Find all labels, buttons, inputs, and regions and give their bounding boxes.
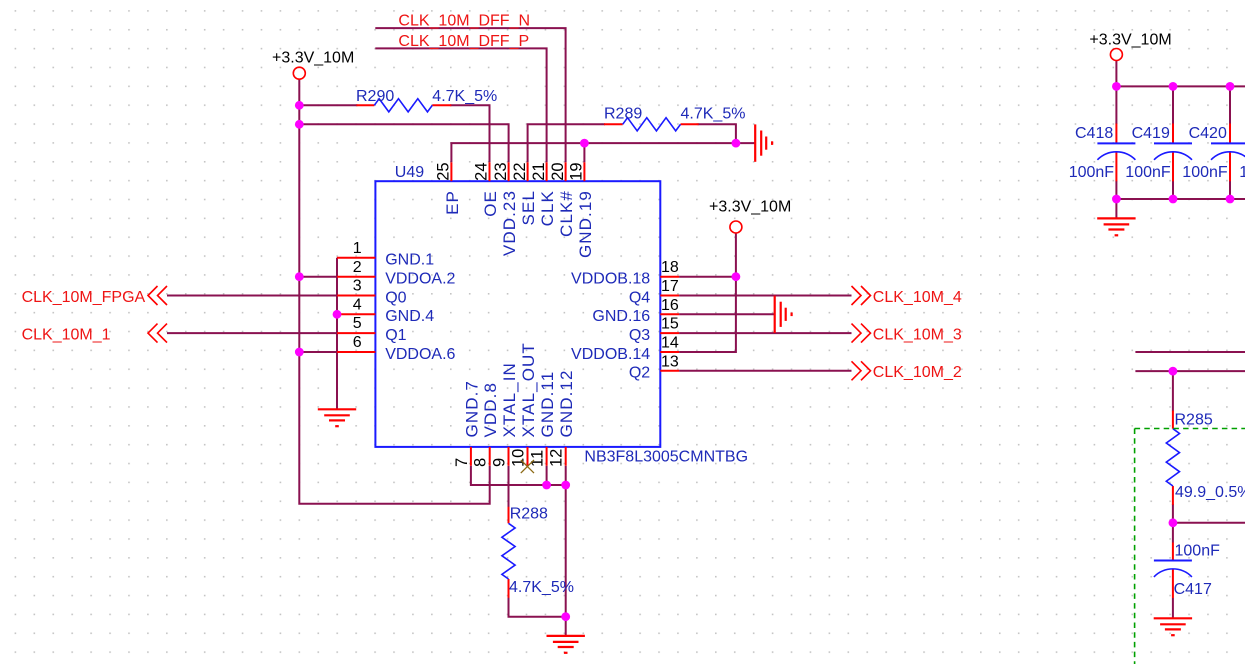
- svg-text:11: 11: [529, 450, 547, 467]
- svg-text:Q2: Q2: [629, 365, 650, 382]
- U49 top pin stubs 25-19: [451, 162, 584, 181]
- capacitor C420 pins: [1229, 124, 1231, 182]
- U49 left pin stubs 1-6: [337, 258, 375, 352]
- wire upper right horizontal 2 to R285: [1135, 370, 1245, 372]
- svg-text:VDDOA.2: VDDOA.2: [385, 271, 455, 288]
- svg-text:VDD.8: VDD.8: [481, 382, 500, 438]
- svg-text:CLK_10M_FPGA: CLK_10M_FPGA: [22, 289, 146, 306]
- capacitor C419 pins: [1172, 124, 1174, 182]
- off-page connector CLK_10M_3: [852, 324, 962, 344]
- U49 bottom pin numbers 7-12: [453, 449, 566, 467]
- svg-text:CLK_10M_3: CLK_10M_3: [873, 326, 962, 343]
- wire R288 bottom to ground node: [509, 597, 566, 617]
- resistor R289 pins: [604, 123, 699, 125]
- U49 bottom pin stubs 7-12: [471, 447, 566, 466]
- svg-text:15: 15: [661, 316, 679, 333]
- svg-text:R290: R290: [356, 88, 394, 105]
- wire C420 bottom: [1229, 181, 1231, 199]
- svg-text:CLK: CLK: [538, 190, 557, 226]
- capacitor C417 body: [1154, 561, 1192, 577]
- svg-text:18: 18: [661, 259, 679, 276]
- junction wire/R285: [1169, 367, 1178, 376]
- ground (cap bank): [1097, 218, 1135, 235]
- svg-text:1: 1: [353, 240, 362, 257]
- wire C419 top: [1172, 86, 1174, 124]
- junction capbus/C420: [1226, 82, 1235, 91]
- wire pin 9 (XTAL_IN) to R288: [508, 466, 510, 508]
- svg-text:6: 6: [353, 334, 362, 351]
- resistor R289 body: [623, 118, 681, 131]
- svg-text:NB3F8L3005CMNTBG: NB3F8L3005CMNTBG: [584, 448, 748, 465]
- wire rail to R290 left: [299, 104, 357, 106]
- svg-text:22: 22: [511, 162, 529, 180]
- wire cap top bus: [1116, 85, 1245, 87]
- wire cap bottom bus: [1116, 198, 1245, 200]
- svg-text:R285: R285: [1175, 412, 1213, 429]
- svg-text:EP: EP: [443, 190, 462, 215]
- U49 left pin names: [385, 252, 455, 363]
- svg-text:U49: U49: [395, 164, 424, 181]
- wire R290 right to pin 24 (OE): [450, 105, 489, 162]
- wire pin 16 (GND.16) to ground: [679, 313, 775, 315]
- ground (GND.16, rotated): [775, 296, 792, 333]
- svg-text:100nF: 100nF: [1069, 164, 1115, 181]
- wire net CLK_10M_DFF_N to pin 20: [375, 28, 565, 162]
- svg-text:GND.16: GND.16: [592, 308, 650, 325]
- resistor R288 body: [502, 523, 515, 579]
- junction gnd/pin4: [333, 310, 342, 319]
- svg-text:C418: C418: [1075, 125, 1113, 142]
- svg-text:24: 24: [473, 162, 491, 180]
- svg-text:CLK_10M_2: CLK_10M_2: [873, 364, 962, 381]
- svg-text:49.9_0.5%: 49.9_0.5%: [1175, 484, 1245, 501]
- svg-text:VDD.23: VDD.23: [500, 190, 519, 256]
- svg-text:+3.3V_10M: +3.3V_10M: [1089, 32, 1171, 49]
- power symbol +3.3V_10M (middle): [709, 199, 791, 234]
- junction gndwire/pin19: [580, 139, 589, 148]
- svg-text:2: 2: [353, 259, 362, 276]
- svg-text:R289: R289: [604, 106, 642, 123]
- U49 left pin numbers 1-6: [353, 240, 362, 351]
- svg-text:12: 12: [548, 449, 566, 467]
- ground (left, GND.1/GND.4): [318, 409, 356, 426]
- svg-text:4: 4: [353, 296, 362, 313]
- wire pin 19 drop: [583, 143, 585, 162]
- wire pin 13 (Q2) to CLK_10M_2: [679, 370, 851, 372]
- capacitor C418 pins: [1115, 124, 1117, 182]
- junction rail/pin2: [295, 272, 304, 281]
- wire pin 25 (EP) and pin 19 (GND.19) to ground: [451, 143, 755, 162]
- svg-text:5: 5: [353, 315, 362, 332]
- off-page connector CLK_10M_FPGA: [22, 286, 167, 306]
- capacitor C418 body: [1097, 143, 1135, 159]
- svg-text:GND.1: GND.1: [385, 252, 434, 269]
- U49 top pin numbers 25-19: [435, 162, 586, 180]
- wire +3.3V_10M to decoupling cap bus: [1115, 61, 1117, 87]
- svg-text:9: 9: [491, 458, 509, 467]
- svg-text:C417: C417: [1174, 581, 1212, 598]
- svg-text:7: 7: [453, 458, 471, 467]
- capacitor C417 pins: [1172, 543, 1174, 599]
- junction rail/VDD23: [295, 120, 304, 129]
- svg-text:100nF: 100nF: [1239, 164, 1245, 181]
- junction gndbus/pin11: [542, 481, 551, 490]
- resistor R290 pins: [356, 104, 451, 106]
- junction rail/R290: [295, 101, 304, 110]
- wire C419 bottom: [1172, 181, 1174, 199]
- svg-text:+3.3V_10M: +3.3V_10M: [272, 50, 354, 67]
- off-page connector CLK_10M_4: [852, 286, 962, 306]
- svg-text:4.7K_5%: 4.7K_5%: [509, 579, 574, 596]
- wire rail to pin 23 (VDD.23): [299, 124, 508, 162]
- wire upper right horizontal 1: [1135, 351, 1245, 353]
- wire C418 top: [1115, 86, 1117, 124]
- wire +3.3V_10M rail down-left to pin 8 (VDD.8): [299, 80, 489, 504]
- junction capbus/C419: [1169, 82, 1178, 91]
- svg-text:14: 14: [661, 335, 679, 352]
- wire net CLK_10M_DFF_P to pin 21: [375, 48, 546, 162]
- off-page connector CLK_10M_1: [22, 324, 167, 344]
- wire rail to pin 6 (VDDOA.6): [299, 351, 337, 353]
- svg-text:19: 19: [568, 162, 586, 180]
- svg-text:CLK_10M_DFF_N: CLK_10M_DFF_N: [398, 13, 530, 30]
- ground (R289, rotated): [755, 124, 772, 161]
- svg-text:Q0: Q0: [385, 289, 406, 306]
- wire pin 15 (Q3) to CLK_10M_3: [679, 332, 851, 334]
- svg-text:GND.12: GND.12: [557, 369, 576, 437]
- wire pin 18 branch: [679, 276, 736, 278]
- svg-text:CLK#: CLK#: [557, 190, 576, 237]
- wire pin 12 down to ground: [565, 466, 567, 636]
- junction gndwire/R289: [732, 139, 741, 148]
- U49 bottom pin names: [462, 342, 576, 437]
- junction capgnd/C419: [1169, 195, 1178, 204]
- wire pin 17 (Q4) to CLK_10M_4: [679, 295, 851, 297]
- svg-text:OE: OE: [481, 190, 500, 217]
- junction gnd/R288: [561, 612, 570, 621]
- junction capbus/C418: [1112, 82, 1121, 91]
- wire C417 bottom to ground: [1172, 598, 1174, 618]
- svg-text:13: 13: [661, 353, 679, 370]
- wire +3.3V_10M to pins 18/14 (VDDOB): [679, 233, 736, 352]
- U49 right pin names: [571, 271, 650, 382]
- svg-text:GND.4: GND.4: [385, 308, 434, 325]
- wire rail to pin 2 (VDDOA.2): [299, 276, 337, 278]
- svg-text:4.7K_5%: 4.7K_5%: [681, 106, 746, 123]
- svg-text:CLK_10M_4: CLK_10M_4: [873, 289, 962, 306]
- IC U49 outline: [375, 181, 660, 447]
- svg-text:100nF: 100nF: [1175, 543, 1221, 560]
- svg-text:100nF: 100nF: [1125, 164, 1171, 181]
- svg-text:GND.7: GND.7: [462, 380, 481, 437]
- resistor R290 body: [374, 99, 432, 112]
- capacitor C419 body: [1154, 143, 1192, 159]
- resistor R288 pins: [508, 507, 510, 598]
- resistor R285 pins: [1172, 411, 1174, 505]
- svg-text:23: 23: [492, 162, 510, 180]
- resistor R285 body: [1166, 429, 1179, 486]
- svg-text:C420: C420: [1189, 125, 1227, 142]
- wire R289 right down to ground bus: [698, 124, 736, 143]
- off-page connector CLK_10M_2: [852, 361, 962, 381]
- svg-text:17: 17: [661, 278, 679, 295]
- power symbol +3.3V_10M (left): [272, 50, 354, 80]
- wire C420 top: [1229, 86, 1231, 124]
- svg-text:100nF: 100nF: [1182, 164, 1228, 181]
- svg-text:20: 20: [549, 162, 567, 180]
- svg-text:+3.3V_10M: +3.3V_10M: [709, 199, 791, 216]
- wire C418 bottom: [1115, 181, 1117, 199]
- wire R285 bottom to node: [1172, 504, 1174, 543]
- svg-text:SEL: SEL: [519, 190, 538, 225]
- U49 top pin names: [443, 190, 595, 258]
- svg-text:CLK_10M_DFF_P: CLK_10M_DFF_P: [398, 33, 529, 50]
- power symbol +3.3V_10M (top right): [1089, 32, 1171, 61]
- svg-text:VDDOA.6: VDDOA.6: [385, 346, 455, 363]
- U49 right pin numbers 18-13: [661, 259, 679, 370]
- svg-text:16: 16: [661, 297, 679, 314]
- dashed region border: [1135, 429, 1245, 664]
- junction capgnd/C418: [1112, 195, 1121, 204]
- svg-text:XTAL_IN: XTAL_IN: [500, 362, 519, 437]
- junction R285/C417: [1169, 518, 1178, 527]
- svg-text:GND.11: GND.11: [538, 371, 557, 438]
- wire net CLK_10M_1 to pin 5 (Q1): [167, 332, 337, 334]
- svg-text:3: 3: [353, 278, 362, 295]
- svg-text:4.7K_5%: 4.7K_5%: [432, 88, 497, 105]
- junction capgnd/C420: [1226, 195, 1235, 204]
- ground (C417): [1154, 618, 1192, 635]
- svg-text:8: 8: [472, 458, 490, 467]
- svg-text:GND.19: GND.19: [576, 190, 595, 258]
- junction rail/pin6: [295, 348, 304, 357]
- wire node to right edge: [1173, 522, 1245, 524]
- svg-text:25: 25: [435, 162, 453, 180]
- svg-text:VDDOB.14: VDDOB.14: [571, 346, 650, 363]
- wire R285 top drop: [1172, 371, 1174, 411]
- wire pin 11 drop: [546, 466, 548, 485]
- U49 right pin stubs 18-13: [660, 277, 679, 371]
- svg-text:Q1: Q1: [385, 327, 406, 344]
- junction v33/pin18: [732, 272, 741, 281]
- no-connect X on pin 10 (XTAL_OUT): [521, 460, 534, 473]
- wire cap bus to ground: [1115, 199, 1117, 218]
- ground (bottom, pin 12 / R288): [547, 636, 585, 653]
- svg-text:Q4: Q4: [629, 289, 650, 306]
- svg-text:VDDOB.18: VDDOB.18: [571, 271, 650, 288]
- svg-text:C419: C419: [1132, 125, 1170, 142]
- svg-text:XTAL_OUT: XTAL_OUT: [519, 342, 538, 437]
- wire bottom ground bus pins 7,11,12: [471, 466, 566, 485]
- capacitor C420 body: [1211, 143, 1245, 159]
- svg-text:R288: R288: [510, 506, 548, 523]
- wire pin 1 (GND.1)/pin 4 (GND.4) to ground: [336, 258, 338, 410]
- svg-text:CLK_10M_1: CLK_10M_1: [22, 326, 111, 343]
- svg-text:Q3: Q3: [629, 327, 650, 344]
- wire net CLK_10M_FPGA to pin 3 (Q0): [167, 295, 337, 297]
- svg-text:21: 21: [530, 162, 548, 180]
- junction gndbus/pin12: [561, 481, 570, 490]
- wire pin 22 (SEL) to R289 left: [528, 124, 605, 162]
